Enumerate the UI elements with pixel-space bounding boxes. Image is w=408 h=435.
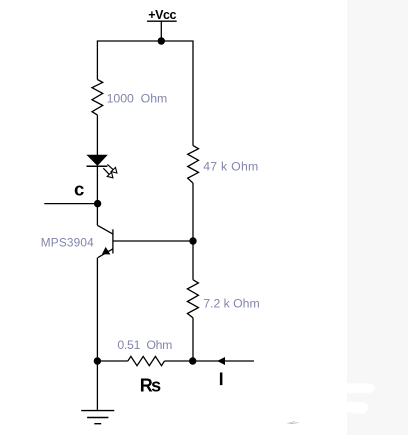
junction dot Vcc node <box>158 37 165 44</box>
ground bar 3 <box>94 423 101 425</box>
svg-text:7.2 k Ohm: 7.2 k Ohm <box>203 296 259 310</box>
wire bottom right <box>193 360 254 362</box>
ground bar 2 <box>87 417 108 419</box>
ground bar 1 <box>81 410 114 412</box>
resistor Rs 0.51 Ohm <box>128 356 165 365</box>
LED D1 triangle <box>88 155 107 165</box>
resistor R3 7.2 k Ohm <box>187 280 198 318</box>
svg-text:47 k Ohm: 47 k Ohm <box>203 160 258 174</box>
junction dot base node <box>189 237 196 244</box>
svg-text:+Vcc: +Vcc <box>148 8 176 22</box>
resistor R1 1000 Ohm <box>92 80 103 115</box>
wire R3 down <box>192 318 194 361</box>
wire node c stub <box>44 203 97 205</box>
svg-text:0.51 Ohm: 0.51 Ohm <box>117 338 172 352</box>
wire Vcc stub <box>160 21 162 41</box>
junction dot bottom right <box>189 357 196 364</box>
wire bottom left segment <box>97 360 127 362</box>
wire base node to R3 <box>192 241 194 280</box>
ground wire <box>96 361 98 411</box>
junction dot node c <box>94 200 101 207</box>
wire Rs to node <box>165 360 194 362</box>
LED D1 light arrow 2 <box>103 168 110 175</box>
wire top rail <box>97 41 193 146</box>
LED D1 light arrow 1 <box>107 164 114 170</box>
svg-text:1000 Ohm: 1000 Ohm <box>107 92 168 106</box>
resistor R2 47 k Ohm <box>188 146 199 184</box>
svg-text:c: c <box>74 178 84 199</box>
current arrow I <box>218 358 225 365</box>
LED D1 cathode bar <box>87 165 108 167</box>
wire base <box>113 240 193 242</box>
wire LED to node c <box>96 166 98 203</box>
transistor Q1 MPS3904 <box>97 225 113 257</box>
svg-text:Rs: Rs <box>140 375 161 395</box>
wire R1 to LED <box>96 115 98 155</box>
power +Vcc rail bar <box>147 20 177 22</box>
label I <box>220 373 223 386</box>
wire R2 to base node <box>192 183 194 241</box>
wire emitter down <box>96 258 98 361</box>
wire collector <box>96 204 98 226</box>
junction dot bottom left <box>94 357 101 364</box>
svg-text:MPS3904: MPS3904 <box>41 236 94 250</box>
